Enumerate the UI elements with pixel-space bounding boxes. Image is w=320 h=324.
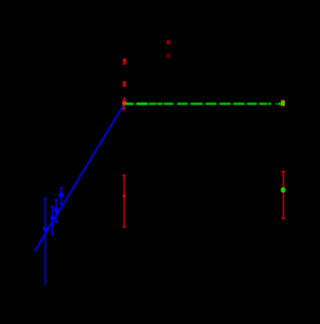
left red tall error bar (x=124) <box>123 175 126 227</box>
green overlap on junction square <box>123 103 126 105</box>
blue error bar P2 <box>51 207 54 235</box>
red open square marker (x=168, y=42) <box>167 41 169 44</box>
red junction marker (filled square at start of green line) <box>123 98 126 109</box>
red marker B (error bar with small square, x=124, y=84) <box>123 82 126 87</box>
blue model line (power-law fit) <box>35 106 123 251</box>
blue data point P3 <box>54 208 59 213</box>
green square point on right bar <box>281 188 285 192</box>
blue error bar P4 <box>60 188 63 204</box>
blue data point P2 <box>50 216 55 221</box>
right red tall error bar (x=283) <box>281 171 285 219</box>
blue error bar P1 (long, no bottom cap) <box>44 198 47 284</box>
red marker A (filled square, x=124, y=60) <box>123 59 127 65</box>
green end square marker <box>281 101 285 105</box>
blue data point P1 <box>43 227 48 232</box>
red square behind green end marker <box>281 100 285 107</box>
green dashed horizontal line <box>126 103 281 106</box>
small blue dot near junction <box>126 99 128 101</box>
blue error bar P3 <box>55 200 58 223</box>
blue data point P4 <box>59 192 64 197</box>
dim red open marker (x=168, y=56) <box>167 54 170 57</box>
red square point on left bar <box>123 195 126 198</box>
